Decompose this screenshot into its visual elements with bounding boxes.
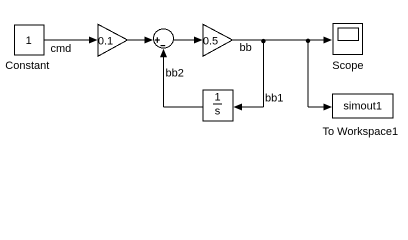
arrowhead into simout1 (324, 104, 333, 111)
scope screen (338, 28, 359, 41)
to-workspace block simout1 (333, 94, 394, 118)
wire junction down to workspace (307, 40, 309, 107)
wire Gain1 to Scope (233, 39, 330, 41)
arrowhead into Sum bottom (160, 49, 167, 58)
junction node at scope branch (306, 39, 310, 43)
gain block Gain1 0.5 (203, 24, 233, 56)
svg-text:simout1: simout1 (343, 101, 382, 113)
svg-text:Scope: Scope (332, 60, 363, 72)
svg-text:1: 1 (214, 92, 220, 104)
arrowhead into Gain1 (194, 37, 203, 44)
wire right-to-left into Integrator (237, 106, 264, 108)
minus sign (161, 45, 166, 47)
arrowhead into Scope (324, 37, 333, 44)
svg-text:cmd: cmd (51, 43, 72, 55)
wire Gain to Sum (128, 39, 151, 41)
svg-text:bb: bb (240, 42, 252, 54)
junction node at bb branch (261, 39, 265, 43)
arrowhead into Sum (145, 37, 154, 44)
arrowhead into Integrator (234, 104, 243, 111)
plus sign (155, 39, 160, 41)
wire junction down to integrator feed (263, 40, 265, 107)
integrator fraction line (213, 103, 222, 105)
arrowhead into Gain (89, 37, 98, 44)
wire to simout1 (308, 106, 329, 108)
svg-text:s: s (215, 105, 221, 117)
svg-text:bb1: bb1 (265, 93, 283, 105)
svg-text:0.5: 0.5 (203, 36, 218, 48)
svg-text:1: 1 (26, 35, 32, 47)
svg-text:0.1: 0.1 (98, 36, 113, 48)
integrator block 1/s (203, 90, 233, 121)
wire Integrator output leftward (164, 106, 204, 108)
scope block (333, 24, 363, 55)
gain block Gain 0.1 (98, 24, 128, 56)
svg-text:bb2: bb2 (166, 68, 184, 80)
wire Sum to Gain1 (174, 39, 200, 41)
wire up into Sum bottom (163, 50, 165, 107)
wire Constant to Gain (44, 39, 94, 41)
svg-text:To Workspace1: To Workspace1 (322, 126, 398, 138)
svg-text:Constant: Constant (5, 60, 49, 72)
constant block Constant (15, 25, 45, 55)
sum block (154, 29, 174, 48)
